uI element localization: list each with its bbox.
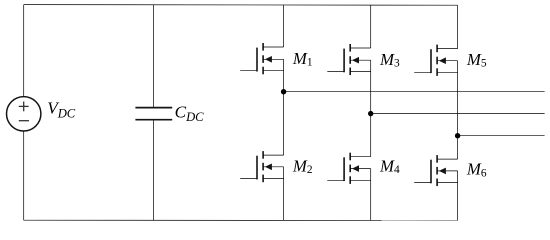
svg-text:M4: M4 (379, 156, 400, 176)
wire: leg 2 upper source to output node (370, 60, 372, 113)
wire: leg 3 lower source to bottom rail (457, 171, 459, 221)
transistor M5 (414, 45, 457, 76)
svg-text:VDC: VDC (47, 98, 76, 120)
transistor M6 (414, 155, 457, 186)
svg-text:CDC: CDC (175, 103, 205, 124)
wire: leg 1 lower source to bottom rail (283, 167, 285, 221)
capacitor C_DC (135, 108, 172, 120)
wire: leg 2 drain feed from top rail (370, 5, 372, 48)
wire: phase 3 output line (458, 135, 545, 137)
wire: leg 1 drain feed from top rail (283, 5, 285, 47)
wire: capacitor bottom lead (153, 120, 155, 220)
transistor M4 (327, 153, 370, 184)
node: phase 2 junction dot (368, 111, 373, 116)
wire: leg 3 drain feed from top rail (457, 5, 459, 48)
wire: capacitor top lead (153, 5, 155, 107)
wire: phase 1 output line (284, 91, 545, 93)
node: phase 1 junction dot (281, 89, 286, 94)
svg-text:M2: M2 (292, 156, 313, 176)
transistor M2 (240, 151, 283, 182)
voltage source V_DC (7, 97, 41, 131)
svg-text:M3: M3 (379, 50, 400, 70)
wire: bottom DC bus rail (24, 219, 458, 221)
wire: leg 1 upper source to output node (283, 59, 285, 91)
wire: leg 2 node to lower drain (370, 114, 372, 157)
wire: leg 1 node to lower drain (283, 92, 285, 155)
wire: top DC bus rail (24, 4, 458, 7)
wire: phase 2 output line (371, 113, 545, 115)
svg-text:M1: M1 (292, 49, 313, 69)
wire: left branch bottom segment (23, 131, 25, 220)
wire: leg 3 upper source to output node (457, 61, 459, 136)
wire: leg 2 lower source to bottom rail (370, 169, 372, 221)
wire: left branch top segment (23, 5, 25, 97)
transistor M3 (327, 44, 370, 75)
wire: leg 3 node to lower drain (457, 136, 459, 159)
svg-text:M5: M5 (466, 50, 487, 70)
transistor M1 (240, 43, 283, 74)
svg-text:M6: M6 (466, 160, 487, 180)
node: phase 3 junction dot (455, 133, 460, 138)
